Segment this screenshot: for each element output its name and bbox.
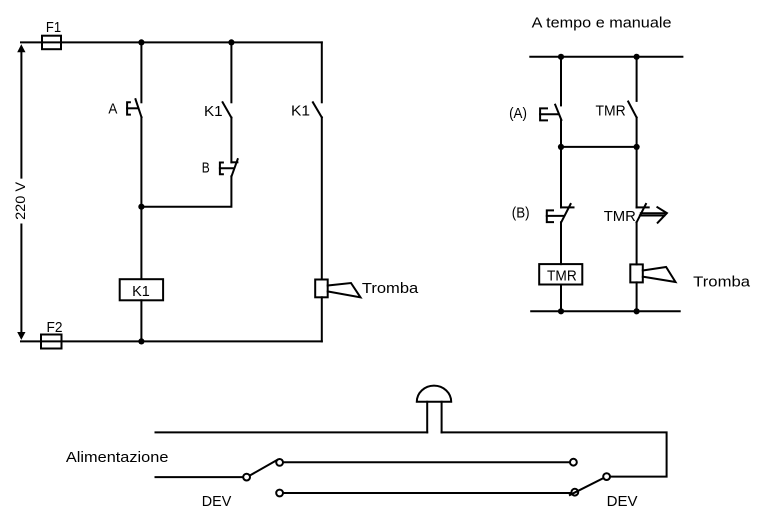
svg-text:TMR: TMR xyxy=(596,102,626,119)
dimension line 220 V xyxy=(13,44,28,340)
wire branch K1 middle upper xyxy=(230,42,232,102)
svg-text:Tromba: Tromba xyxy=(362,280,419,297)
bell xyxy=(417,386,451,433)
svg-text:(B): (B) xyxy=(512,205,530,222)
wire bell bus right with drop xyxy=(442,432,667,476)
node on top bus at branch K1 xyxy=(228,39,234,45)
fuse F1 xyxy=(42,19,61,49)
svg-text:K1: K1 xyxy=(291,103,310,120)
svg-text:A: A xyxy=(108,100,117,117)
wire TMR branch upper xyxy=(636,57,638,101)
wire horn to bottom bus xyxy=(636,282,638,311)
wire coil to bottom bus xyxy=(140,300,142,341)
wire feed to left DEV xyxy=(156,476,244,478)
contact TMR (NC timed with arrow) xyxy=(604,204,667,225)
svg-text:DEV: DEV xyxy=(607,493,638,510)
node top bus right branch xyxy=(634,54,640,60)
wire bottom bus left circuit xyxy=(21,340,322,342)
wire right branch to horn xyxy=(321,117,323,279)
wire branch A upper xyxy=(140,42,142,102)
svg-text:Alimentazione: Alimentazione xyxy=(66,449,168,466)
svg-text:A tempo e manuale: A tempo e manuale xyxy=(532,15,672,32)
wire (B) branch upper xyxy=(560,147,562,208)
svg-text:TMR: TMR xyxy=(604,208,636,225)
node bottom bus left xyxy=(558,308,564,314)
wire below B and across to node xyxy=(141,176,231,206)
pushbutton (B) (NC) xyxy=(512,204,574,222)
node mid bus right xyxy=(634,144,640,150)
wire upper traveller xyxy=(283,461,570,463)
wire (A) to mid wire xyxy=(560,120,562,147)
switch DEV left xyxy=(202,459,283,510)
node on top bus at branch A xyxy=(138,39,144,45)
svg-text:K1: K1 xyxy=(204,103,223,120)
horn Tromba left xyxy=(315,280,419,298)
wire timed branch upper xyxy=(636,147,638,208)
pushbutton A (NO) xyxy=(108,99,141,117)
wire branch K1 right upper xyxy=(321,42,323,102)
wire timed contact to horn xyxy=(636,222,638,264)
svg-text:F2: F2 xyxy=(47,319,63,336)
wire horn to bottom bus xyxy=(321,297,323,341)
contact K1 (NO, middle) xyxy=(204,102,231,120)
svg-text:K1: K1 xyxy=(132,283,150,300)
svg-text:TMR: TMR xyxy=(547,267,577,284)
wire lower traveller xyxy=(283,492,571,494)
svg-text:220 V: 220 V xyxy=(13,182,28,220)
contact K1 (NO, right) xyxy=(291,102,322,119)
pushbutton (A) (NO) xyxy=(509,105,561,122)
svg-text:B: B xyxy=(202,160,210,177)
wire top bus left circuit xyxy=(21,41,322,43)
horn Tromba right xyxy=(630,264,750,290)
switch DEV right xyxy=(570,459,638,510)
svg-text:Tromba: Tromba xyxy=(693,274,751,291)
svg-text:F1: F1 xyxy=(46,19,61,36)
wire bottom bus right circuit xyxy=(531,310,680,312)
node mid bus left xyxy=(558,144,564,150)
svg-text:(A): (A) xyxy=(509,105,527,122)
node bottom bus right xyxy=(634,308,640,314)
timer box TMR xyxy=(539,264,582,284)
wire bell bus left xyxy=(156,431,428,433)
wire TMR contact to mid wire xyxy=(636,118,638,147)
wire (B) to TMR box xyxy=(560,222,562,264)
node on bottom bus xyxy=(138,338,144,344)
wire TMR box to bottom bus xyxy=(560,285,562,312)
node top bus left branch xyxy=(558,54,564,60)
fuse F2 xyxy=(41,319,63,349)
wire branch A lower to coil xyxy=(140,117,142,278)
wire mid bus right circuit xyxy=(561,146,637,148)
wire top bus right circuit xyxy=(530,56,682,58)
wire between K1 contact and B xyxy=(230,118,232,163)
svg-text:DEV: DEV xyxy=(202,493,232,510)
node junction A branch / B branch xyxy=(138,204,144,210)
pushbutton B (NC) xyxy=(202,159,238,177)
wire (A) branch upper xyxy=(560,57,562,106)
coil K1 xyxy=(120,279,163,300)
contact TMR (NO) xyxy=(596,102,637,120)
